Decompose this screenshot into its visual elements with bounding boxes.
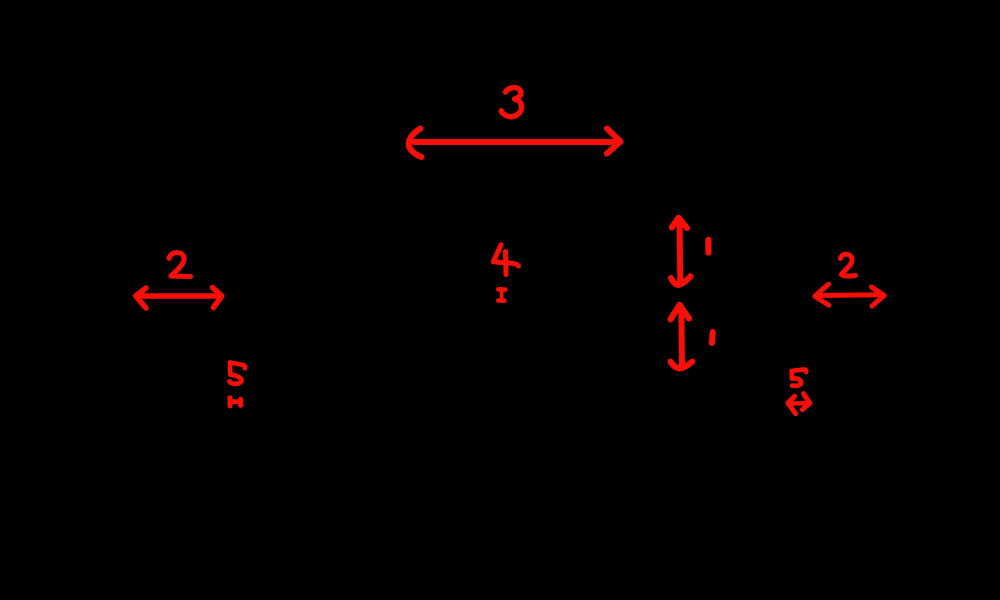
dimension label 1 (lower) [709,332,716,343]
dimension label 5 (right) : vertical and bowl [792,371,801,386]
tiny horizontal double arrow under right 5 : right head [802,394,810,410]
collapsed vertical double arrow under label 4 [498,289,505,300]
tiny horizontal double arrow under right 5 : shaft [790,401,808,406]
dimension label 1 (upper) [705,240,711,253]
dimension label 2 (left) [169,253,191,277]
vertical double arrow (1 unit, upper) : bottom head [671,276,691,285]
horizontal double arrow (2 units, left) : left head [136,288,146,308]
horizontal double arrow (2 units, right) : right head [872,287,885,306]
horizontal double arrow (3 units, top) : left curved head [409,129,422,158]
vertical double arrow (1 unit, upper) : shaft [677,219,684,283]
tiny horizontal double arrow under right 5 : left head [788,396,796,413]
vertical double arrow (1 unit, lower) : shaft [678,307,685,366]
horizontal double arrow (2 units, left) : shaft [137,293,221,299]
horizontal double arrow (2 units, left) : right head [213,288,222,308]
dimension label 5 (left) : top bar [230,363,245,369]
horizontal double arrow (3 units, top) : right head [607,129,621,154]
vertical double arrow (1 unit, lower) : bottom head [671,362,693,369]
dimension label 4 (center) : diagonal and bar [493,245,518,266]
collapsed horizontal double arrow under left 5 [230,398,241,406]
dimension label 5 (right) : top bar [792,369,806,372]
dimension label 2 (right) [841,254,856,276]
horizontal double arrow (2 units, right) : left head [815,284,829,305]
vertical double arrow (1 unit, lower) : top head [671,305,690,320]
dimension label 5 (left) : vertical and bowl [230,363,242,384]
horizontal double arrow (3 units, top) : shaft [414,139,618,145]
vertical double arrow (1 unit, upper) : top head [672,218,687,228]
dimension label 3 (top) [501,88,521,117]
horizontal double arrow (2 units, right) : shaft [816,292,884,298]
dimension label 4 (center) : vertical stroke [503,252,509,275]
